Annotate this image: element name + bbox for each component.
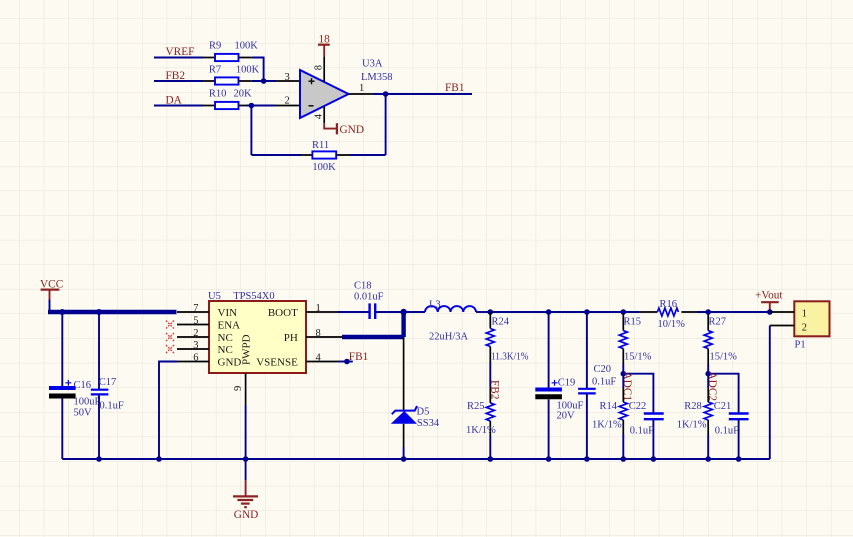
svg-text:VSENSE: VSENSE (256, 357, 298, 369)
svg-text:R28: R28 (684, 401, 702, 412)
resistor R7 (203, 65, 260, 85)
svg-text:R10: R10 (209, 89, 227, 100)
svg-text:R27: R27 (709, 317, 727, 328)
resistor R15 (619, 312, 651, 374)
svg-text:0.1uF: 0.1uF (100, 401, 124, 412)
op-amp U3A (276, 59, 393, 119)
svg-text:C21: C21 (714, 401, 732, 412)
svg-text:20K: 20K (234, 89, 253, 100)
svg-text:NC: NC (218, 344, 233, 356)
wire (476, 311, 490, 313)
svg-text:P1: P1 (795, 340, 806, 351)
svg-text:R15: R15 (624, 317, 642, 328)
svg-text:10/1%: 10/1% (658, 319, 686, 330)
svg-text:9: 9 (233, 386, 244, 391)
resistor R10 (203, 89, 252, 110)
svg-text:15/1%: 15/1% (710, 352, 738, 363)
wire pin9 (245, 405, 247, 480)
junction (546, 456, 552, 462)
wire thick VIN (48, 310, 177, 314)
svg-text:6: 6 (193, 352, 198, 363)
resistor R11 (301, 140, 350, 173)
svg-text:VREF: VREF (166, 46, 195, 58)
wire (154, 105, 203, 107)
svg-text:50V: 50V (74, 408, 93, 419)
junction (488, 456, 494, 462)
svg-text:TPS54X0: TPS54X0 (233, 291, 274, 302)
wire (375, 311, 403, 313)
junction (705, 371, 711, 377)
svg-text:L3: L3 (429, 300, 441, 311)
svg-text:FB1: FB1 (349, 351, 368, 363)
junction (401, 456, 407, 462)
svg-text:NC: NC (218, 332, 233, 344)
svg-text:U3A: U3A (362, 59, 383, 70)
junction (546, 309, 552, 315)
svg-text:0.1uF: 0.1uF (592, 376, 616, 387)
svg-text:BOOT: BOOT (268, 307, 298, 319)
svg-text:U5: U5 (208, 291, 221, 302)
svg-text:100uF: 100uF (74, 397, 101, 408)
svg-text:22uH/3A: 22uH/3A (429, 332, 469, 343)
junction (383, 91, 389, 97)
wire (154, 57, 203, 59)
wire (top bus) (490, 311, 770, 313)
junction (59, 309, 65, 315)
resistor R28 (677, 374, 712, 459)
capacitor C20 (578, 312, 616, 459)
pin 8 (323, 56, 325, 82)
wire P1 pin2 (769, 326, 771, 460)
junction (767, 309, 773, 315)
svg-text:GND: GND (340, 124, 364, 136)
svg-text:0.01uF: 0.01uF (354, 292, 384, 303)
svg-text:C16: C16 (74, 380, 92, 391)
svg-text:18: 18 (319, 33, 331, 45)
svg-text:R7: R7 (209, 65, 221, 76)
resistor R27 (704, 312, 737, 374)
junction (651, 456, 657, 462)
svg-text:LM358: LM358 (361, 72, 393, 83)
svg-text:3: 3 (193, 340, 198, 351)
svg-text:R24: R24 (492, 317, 510, 328)
wire (489, 362, 491, 388)
diode D5 (391, 337, 440, 459)
junction (705, 309, 711, 315)
svg-text:3: 3 (285, 72, 290, 83)
power port 18 (318, 33, 330, 56)
svg-text:2: 2 (193, 328, 198, 339)
inductor L3 (425, 300, 476, 343)
svg-text:C17: C17 (99, 377, 117, 388)
pin 4 (323, 106, 325, 123)
resistor R25 (466, 388, 496, 460)
svg-text:1K/1%: 1K/1% (592, 419, 622, 430)
capacitor C18 (354, 281, 384, 320)
wire (252, 80, 276, 82)
resistor R9 (203, 40, 258, 61)
wire (252, 58, 264, 82)
svg-text:D5: D5 (417, 407, 430, 418)
svg-text:8: 8 (316, 328, 321, 339)
capacitor C21 (714, 401, 749, 459)
svg-text:20V: 20V (557, 411, 576, 422)
svg-text:C18: C18 (354, 281, 372, 292)
wire thick PH node (342, 310, 404, 337)
junction (261, 78, 267, 84)
resistor R16 (639, 299, 697, 330)
capacitor C16 (49, 312, 101, 459)
pin 1 (349, 93, 373, 95)
svg-text:FB1: FB1 (445, 82, 464, 94)
svg-text:ENA: ENA (218, 320, 241, 332)
junction (621, 371, 627, 377)
wire (404, 311, 425, 313)
wire (246, 105, 276, 107)
junction (736, 456, 742, 462)
junction (400, 309, 406, 315)
svg-text:GND: GND (234, 509, 258, 521)
svg-text:5: 5 (193, 315, 198, 326)
power port GND (bottom) (233, 480, 258, 520)
capacitor C17 (91, 312, 124, 459)
junction (584, 456, 590, 462)
svg-text:PH: PH (284, 332, 298, 344)
junction (96, 309, 102, 315)
svg-text:0.1uF: 0.1uF (630, 426, 654, 437)
wire (623, 374, 653, 414)
svg-text:C19: C19 (558, 378, 576, 389)
junction (584, 309, 590, 315)
svg-text:1K/1%: 1K/1% (466, 425, 496, 436)
junction (96, 456, 102, 462)
power port VCC (40, 278, 63, 299)
svg-text:GND: GND (218, 357, 242, 369)
svg-text:VIN: VIN (218, 307, 238, 319)
svg-text:2: 2 (285, 96, 290, 107)
svg-text:R14: R14 (600, 401, 618, 412)
net label FB1 (VSENSE) (338, 351, 368, 364)
svg-text:8: 8 (313, 65, 324, 70)
svg-text:100K: 100K (236, 65, 260, 76)
power port GND (324, 123, 364, 136)
svg-text:1: 1 (802, 309, 807, 320)
svg-text:1: 1 (316, 303, 321, 314)
svg-text:+Vout: +Vout (755, 290, 783, 302)
junction (488, 309, 494, 315)
svg-text:R25: R25 (467, 401, 485, 412)
svg-text:PWPD: PWPD (241, 334, 253, 365)
svg-text:C22: C22 (629, 401, 647, 412)
svg-text:7: 7 (193, 303, 198, 314)
svg-text:C20: C20 (594, 364, 612, 375)
chip U5 TPS54X0 (177, 291, 342, 405)
junction (243, 456, 249, 462)
junction (705, 456, 711, 462)
wire (49, 300, 51, 313)
svg-text:100K: 100K (312, 162, 336, 173)
wire (373, 93, 472, 95)
connector P1 (770, 301, 830, 350)
svg-text:0.1uF: 0.1uF (715, 426, 739, 437)
junction (156, 456, 162, 462)
resistor R24 (486, 312, 528, 363)
svg-text:4: 4 (316, 352, 322, 363)
junction (249, 103, 255, 109)
wire pin6 GND (159, 362, 177, 460)
svg-text:1K/1%: 1K/1% (677, 419, 707, 430)
capacitor C22 (629, 401, 664, 459)
no-ERC marks (166, 321, 174, 354)
wire (154, 80, 203, 82)
svg-text:R9: R9 (209, 40, 221, 51)
junction (621, 309, 627, 315)
wire (708, 374, 738, 414)
capacitor C19 (535, 312, 583, 459)
svg-text:2: 2 (802, 323, 807, 334)
svg-text:R16: R16 (660, 299, 678, 310)
svg-text:SS34: SS34 (417, 418, 440, 429)
bottom bus wire (62, 458, 770, 460)
svg-text:15/1%: 15/1% (624, 352, 652, 363)
power port +Vout (755, 290, 783, 313)
svg-text:1: 1 (359, 83, 364, 94)
svg-text:11.3K/1%: 11.3K/1% (491, 352, 529, 363)
junction (621, 456, 627, 462)
wire (251, 94, 385, 155)
wire (250, 106, 252, 156)
svg-text:R11: R11 (312, 140, 329, 151)
wire BOOT (338, 311, 370, 313)
resistor R14 (592, 374, 627, 459)
svg-text:100K: 100K (235, 40, 259, 51)
svg-text:4: 4 (313, 113, 324, 119)
